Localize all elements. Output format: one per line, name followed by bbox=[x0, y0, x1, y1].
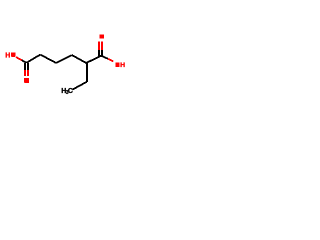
node HO label: O (solid glyph) bbox=[11, 52, 15, 57]
node O1 carbonyl oxygen left (solid glyph) bbox=[24, 78, 29, 83]
wire: double bond C6=O2 line b black half bbox=[101, 50, 103, 56]
svg-text:C: C bbox=[68, 88, 73, 95]
svg-text:H: H bbox=[120, 62, 125, 69]
wire: double bond C1=O1 line b red half bbox=[27, 70, 29, 76]
wire: bond O(HO)-C1 black half bbox=[22, 60, 27, 63]
wire: double bond C1=O1 line b black half bbox=[27, 63, 29, 70]
wire: double bond C1=O1 line a black half bbox=[24, 63, 26, 70]
wire: double bond C6=O2 line a black half bbox=[98, 50, 100, 56]
wire: bond O(HO)-C1 red half bbox=[16, 57, 22, 60]
wire: chain bond C2-C3 bbox=[40, 55, 56, 63]
wire: double bond C1=O1 line a red half bbox=[24, 70, 26, 76]
wire: double bond C6=O2 line a red half bbox=[98, 42, 100, 50]
background bbox=[0, 0, 130, 130]
wire: chain bond C3-C4 bbox=[56, 55, 72, 63]
wire: ethyl bond C7-CH3 bbox=[72, 82, 86, 90]
wire: chain bond C4-C5 bbox=[72, 55, 86, 63]
wire: bond C6-O(OH) red half bbox=[108, 59, 113, 62]
wire: ethyl bond C5-C7 vertical bbox=[86, 63, 88, 82]
node O2 carbonyl oxygen right (solid glyph) bbox=[99, 34, 104, 38]
svg-text:H: H bbox=[5, 52, 10, 59]
node OH label: O (solid glyph) bbox=[115, 63, 119, 67]
wire: chain bond C1-C2 bbox=[27, 55, 41, 63]
wire: bond C6-O(OH) black half bbox=[101, 56, 108, 59]
wire: chain bond C5-C6 bbox=[86, 56, 101, 63]
wire: double bond C6=O2 line b red half bbox=[101, 42, 103, 50]
